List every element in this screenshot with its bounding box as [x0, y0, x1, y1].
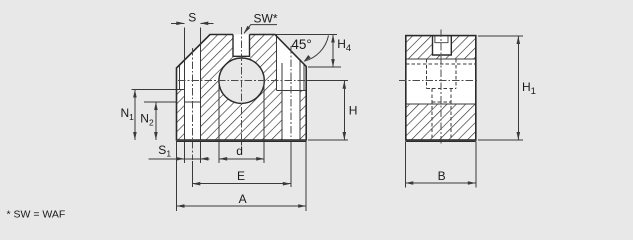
svg-text:E: E	[237, 169, 245, 183]
svg-text:H: H	[349, 104, 358, 118]
svg-text:A: A	[239, 192, 247, 206]
svg-text:* SW = WAF: * SW = WAF	[7, 209, 66, 221]
svg-text:d: d	[236, 144, 243, 158]
svg-text:SW*: SW*	[254, 12, 278, 26]
svg-text:45°: 45°	[291, 37, 311, 52]
svg-text:B: B	[438, 169, 446, 183]
svg-text:S: S	[188, 11, 196, 25]
